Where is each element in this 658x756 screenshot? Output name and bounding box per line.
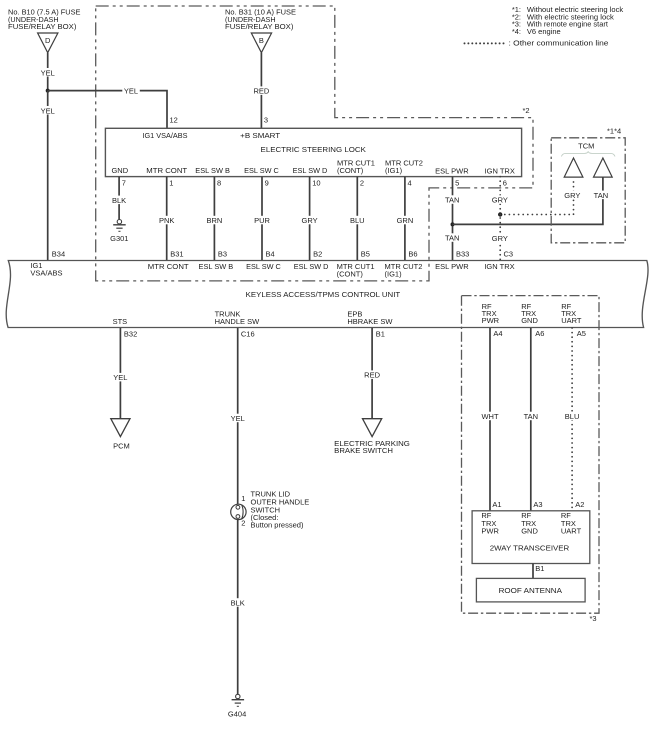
svg-text:TAN: TAN — [445, 234, 459, 243]
svg-text:B4: B4 — [266, 250, 275, 259]
wire PUR from ESL to terminal B4 — [261, 177, 263, 260]
svg-text:B5: B5 — [361, 250, 370, 259]
svg-text:YEL: YEL — [41, 68, 55, 77]
wire PNK from ESL to terminal B31 — [166, 177, 168, 260]
wire color label YEL (trunk) — [229, 414, 247, 423]
svg-text:UART: UART — [561, 527, 582, 536]
wire color label BRN — [205, 216, 224, 225]
svg-text:FUSE/RELAY BOX): FUSE/RELAY BOX) — [225, 22, 294, 31]
dotted wire BLU RF TRX UART A5 to A2 — [571, 328, 573, 511]
svg-text:B32: B32 — [124, 329, 137, 338]
svg-text:ESL SW C: ESL SW C — [246, 262, 281, 271]
wire TAN branch to TCM — [453, 177, 603, 224]
wire color label BLK — [110, 196, 129, 205]
band pin name RF TRX UART — [561, 302, 582, 325]
svg-text:B33: B33 — [456, 250, 469, 259]
svg-text:YEL: YEL — [113, 373, 127, 382]
wire color label GRY (upper) — [491, 195, 510, 204]
svg-text:2: 2 — [241, 518, 245, 527]
svg-text:TAN: TAN — [445, 196, 459, 205]
band pin name RF TRX GND — [521, 302, 538, 325]
svg-text:PNK: PNK — [159, 216, 174, 225]
wire color label YEL (STS) — [112, 373, 130, 382]
svg-text:ESL PWR: ESL PWR — [435, 262, 469, 271]
wire YEL from STS B32 — [119, 328, 121, 419]
wire color label YEL (branch) — [122, 86, 140, 95]
svg-text:10: 10 — [312, 178, 320, 187]
svg-text:HANDLE SW: HANDLE SW — [215, 317, 261, 326]
wire WHT RF TRX PWR A4 to A1 — [489, 328, 491, 511]
band pin name EPB HBRAKE SW — [347, 309, 393, 326]
ECU band: KEYLESS ACCESS/TPMS CONTROL UNIT — [6, 261, 648, 328]
band pin name RF TRX PWR — [482, 302, 500, 325]
legend: note *3 — [512, 20, 609, 29]
wire TAN from ESL PWR pin 5 to terminal B33 — [452, 177, 454, 260]
svg-text:V6 engine: V6 engine — [527, 27, 561, 36]
svg-text:RED: RED — [253, 87, 269, 96]
pin name MTR CUT2 (IG1) — [385, 158, 423, 175]
wire color label RED (EPB) — [363, 370, 381, 379]
junction node on YEL wire — [46, 89, 50, 93]
wire BLK from switch to ground — [237, 520, 239, 695]
svg-text:B31: B31 — [170, 250, 183, 259]
band pin name MTR CUT2 (IG1) — [385, 262, 423, 279]
svg-text:GRY: GRY — [564, 191, 580, 200]
svg-text:G301: G301 — [110, 234, 128, 243]
svg-text:GRY: GRY — [492, 234, 508, 243]
dotted wire GRY from IGN TRX pin 6 to terminal C3 — [499, 177, 501, 260]
svg-text:VSA/ABS: VSA/ABS — [30, 268, 62, 277]
arrow to PCM — [111, 419, 130, 437]
pin name IG1 VSA/ABS (band) — [30, 261, 62, 277]
wire color label TAN (upper) — [443, 195, 462, 204]
junction node on TAN wire — [451, 222, 455, 226]
svg-text:IGN TRX: IGN TRX — [484, 262, 514, 271]
svg-text:3: 3 — [264, 116, 268, 125]
fuse No. B31 label — [225, 8, 296, 31]
svg-text:A6: A6 — [535, 329, 544, 338]
wire color label PUR — [253, 216, 272, 225]
svg-text:2WAY TRANSCEIVER: 2WAY TRANSCEIVER — [490, 543, 570, 552]
transceiver pin name RF TRX UART — [561, 511, 582, 536]
wire GRY from ESL to terminal B2 — [309, 177, 311, 260]
wire YEL from TRUNK HANDLE SW C16 — [237, 328, 239, 504]
svg-text:GRY: GRY — [302, 216, 318, 225]
wire TAN RF TRX GND A6 to A3 — [530, 328, 532, 511]
svg-text:C16: C16 — [241, 329, 255, 338]
wire color label RED — [253, 86, 271, 95]
svg-text:+B SMART: +B SMART — [240, 131, 280, 140]
svg-text:GND: GND — [111, 166, 128, 175]
svg-text:KEYLESS ACCESS/TPMS CONTROL UN: KEYLESS ACCESS/TPMS CONTROL UNIT — [246, 290, 401, 299]
pin name MTR CUT1 (CONT) — [337, 158, 375, 175]
wire color label GRN — [395, 216, 414, 225]
svg-text:IG1 VSA/ABS: IG1 VSA/ABS — [142, 131, 187, 140]
wire BRN from ESL to terminal B3 — [213, 177, 215, 260]
wire YEL horizontal branch to pin 12 — [48, 91, 167, 129]
svg-text:B2: B2 — [313, 250, 322, 259]
ELECTRIC PARKING BRAKE SWITCH label — [334, 439, 410, 455]
connector B (fuse B31) — [251, 33, 271, 53]
dotted wire GRY branch to TCM — [500, 177, 573, 214]
svg-text:A3: A3 — [533, 500, 542, 509]
wire GRN from ESL to terminal B6 — [404, 177, 406, 260]
svg-text:ESL SW D: ESL SW D — [294, 262, 329, 271]
svg-text:ESL SW B: ESL SW B — [199, 262, 234, 271]
svg-text:2: 2 — [360, 178, 364, 187]
svg-text:MTR CONT: MTR CONT — [148, 262, 189, 271]
transceiver pin name RF TRX PWR — [481, 511, 499, 536]
svg-text:ESL SW C: ESL SW C — [244, 166, 279, 175]
svg-text:TCM: TCM — [578, 141, 594, 150]
svg-text:8: 8 — [217, 178, 221, 187]
arrow to electric parking brake switch — [363, 419, 382, 437]
svg-text:PWR: PWR — [481, 527, 499, 536]
wire YEL from fuse D down — [47, 53, 49, 91]
trunk lid switch description — [251, 490, 310, 530]
svg-text:ROOF ANTENNA: ROOF ANTENNA — [499, 586, 562, 595]
svg-text:Button pressed): Button pressed) — [251, 521, 304, 530]
wire color label WHT — [480, 412, 500, 421]
wire color label GRY — [300, 216, 319, 225]
wire color label TAN (TCM) — [592, 191, 611, 200]
svg-text:6: 6 — [503, 178, 507, 187]
svg-text:BLU: BLU — [350, 216, 365, 225]
wire color label GRY (TCM) — [563, 191, 582, 200]
svg-text:12: 12 — [170, 116, 178, 125]
band pin name MTR CUT1 (CONT) — [337, 262, 375, 279]
wire BLU from ESL to terminal B5 — [356, 177, 358, 260]
svg-text:(IG1): (IG1) — [385, 166, 403, 175]
svg-text:4: 4 — [408, 178, 412, 187]
wire color label PNK — [157, 216, 176, 225]
svg-text:YEL: YEL — [231, 414, 245, 423]
svg-text:BLU: BLU — [565, 412, 580, 421]
wire YEL down to B34 — [47, 91, 49, 260]
svg-text:5: 5 — [455, 178, 459, 187]
svg-text:GRN: GRN — [397, 216, 414, 225]
ground G301 — [113, 220, 126, 232]
wire BLK from GND pin 7 — [118, 177, 120, 220]
wire color label BLU — [563, 412, 581, 421]
transceiver pin name RF TRX GND — [521, 511, 538, 536]
TCM connector arrow (GRY) — [564, 158, 583, 177]
svg-text:BLK: BLK — [112, 196, 126, 205]
svg-text:B6: B6 — [408, 250, 417, 259]
junction node on GRY dotted wire — [498, 212, 502, 216]
svg-text:A1: A1 — [492, 500, 501, 509]
TCM brace — [561, 151, 615, 156]
svg-text:WHT: WHT — [481, 412, 498, 421]
svg-text:A5: A5 — [577, 329, 586, 338]
svg-text:(CONT): (CONT) — [337, 269, 364, 278]
svg-text:*4:: *4: — [512, 27, 521, 36]
svg-text:TAN: TAN — [594, 191, 608, 200]
ECU box: ELECTRIC STEERING LOCK U1 — [105, 128, 521, 176]
svg-text:BRAKE SWITCH: BRAKE SWITCH — [334, 446, 393, 455]
svg-text:GND: GND — [521, 316, 538, 325]
svg-text:ESL SW B: ESL SW B — [195, 166, 230, 175]
svg-text:*2: *2 — [523, 106, 530, 115]
svg-text:RED: RED — [364, 371, 380, 380]
svg-text:(CONT): (CONT) — [337, 166, 364, 175]
svg-text:: Other communication line: : Other communication line — [509, 39, 609, 48]
legend: other communication line key — [465, 39, 609, 48]
svg-text:ESL PWR: ESL PWR — [435, 167, 469, 176]
svg-text:B34: B34 — [52, 250, 65, 259]
svg-text:TAN: TAN — [524, 412, 538, 421]
svg-text:C3: C3 — [504, 250, 514, 259]
svg-text:BRN: BRN — [206, 216, 222, 225]
svg-text:B: B — [259, 36, 264, 45]
wire RED from EPB B1 — [371, 328, 373, 419]
wire color label GRY (lower) — [491, 234, 510, 243]
svg-text:IGN TRX: IGN TRX — [485, 167, 515, 176]
trunk lid outer handle switch SW1 — [231, 504, 246, 519]
svg-text:GND: GND — [521, 527, 538, 536]
wire color label TAN (RF) — [521, 412, 540, 421]
svg-text:MTR CONT: MTR CONT — [146, 166, 187, 175]
legend: note *2 — [512, 12, 614, 21]
wire color label YEL (lower) — [39, 106, 57, 115]
wire color label TAN (lower) — [443, 233, 462, 242]
svg-text:A2: A2 — [575, 500, 584, 509]
svg-text:HBRAKE SW: HBRAKE SW — [347, 317, 393, 326]
svg-text:STS: STS — [113, 317, 128, 326]
svg-text:FUSE/RELAY BOX): FUSE/RELAY BOX) — [8, 22, 77, 31]
svg-text:PUR: PUR — [254, 216, 270, 225]
legend: note *4 — [512, 27, 561, 36]
svg-text:ESL SW D: ESL SW D — [293, 166, 328, 175]
svg-text:*3: *3 — [590, 614, 597, 623]
svg-text:(IG1): (IG1) — [385, 269, 403, 278]
svg-text:9: 9 — [265, 178, 269, 187]
wire color label BLK (trunk) — [229, 598, 248, 607]
svg-text:1: 1 — [169, 178, 173, 187]
dashed region boundary *1*4 (TCM) — [551, 138, 625, 243]
ground G404 — [232, 694, 245, 706]
svg-text:A4: A4 — [493, 329, 502, 338]
TCM connector arrow (TAN) — [594, 158, 613, 177]
svg-text:1: 1 — [241, 494, 245, 503]
box ROOF ANTENNA — [476, 578, 585, 602]
svg-text:B3: B3 — [218, 250, 227, 259]
box 2WAY TRANSCEIVER — [472, 511, 590, 564]
dashed region boundary *3 (with remote engine start) — [462, 296, 600, 614]
svg-text:*1*4: *1*4 — [607, 126, 621, 135]
wire color label YEL (upper) — [39, 68, 57, 77]
dashed region boundary *2 (with electric steering lock) — [96, 6, 533, 281]
svg-text:BLK: BLK — [231, 599, 245, 608]
fuse No. B10 label — [8, 8, 81, 31]
svg-text:UART: UART — [561, 316, 582, 325]
svg-text:B1: B1 — [376, 329, 385, 338]
wire transceiver to roof antenna — [532, 564, 534, 579]
svg-text:PCM: PCM — [113, 441, 130, 450]
svg-text:7: 7 — [122, 178, 126, 187]
wire RED from fuse B to pin 3 — [260, 53, 262, 129]
svg-text:YEL: YEL — [41, 106, 55, 115]
svg-text:D: D — [45, 36, 51, 45]
legend: note *1 — [512, 5, 624, 14]
band pin name TRUNK HANDLE SW — [215, 309, 261, 326]
svg-text:GRY: GRY — [492, 196, 508, 205]
svg-text:ELECTRIC STEERING LOCK: ELECTRIC STEERING LOCK — [261, 145, 366, 154]
svg-text:G404: G404 — [228, 710, 246, 719]
svg-text:PWR: PWR — [482, 316, 500, 325]
svg-text:YEL: YEL — [124, 87, 138, 96]
connector D (fuse B10) — [38, 33, 58, 53]
wire color label BLU — [348, 216, 367, 225]
svg-text:B1: B1 — [535, 564, 544, 573]
